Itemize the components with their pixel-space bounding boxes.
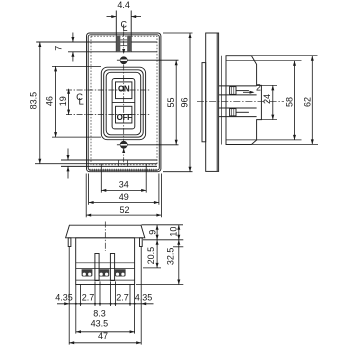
svg-text:62: 62 [303,97,313,107]
svg-text:2.7: 2.7 [116,293,129,303]
svg-text:OFF: OFF [117,113,133,122]
svg-text:2.7: 2.7 [82,293,95,303]
svg-text:L: L [122,23,127,33]
svg-text:24: 24 [262,94,272,104]
svg-text:7: 7 [53,46,63,51]
svg-text:2: 2 [256,83,261,93]
svg-text:20.5: 20.5 [146,247,156,265]
svg-text:32.5: 32.5 [165,248,175,266]
svg-text:46: 46 [44,96,54,106]
svg-text:96: 96 [179,97,189,107]
svg-text:10: 10 [169,227,179,237]
svg-text:ON: ON [118,85,130,94]
svg-text:55: 55 [166,97,176,107]
svg-text:83.5: 83.5 [29,92,39,110]
svg-text:8.3: 8.3 [93,308,106,318]
svg-text:4.35: 4.35 [55,293,73,303]
svg-text:47: 47 [98,331,108,341]
svg-text:52: 52 [119,205,129,215]
svg-text:19: 19 [58,96,68,106]
svg-text:49: 49 [119,192,129,202]
svg-text:4.35: 4.35 [135,293,153,303]
svg-text:43.5: 43.5 [91,319,109,329]
svg-text:4.4: 4.4 [117,0,130,10]
svg-text:L: L [78,97,83,108]
svg-text:58: 58 [285,97,295,107]
svg-text:34: 34 [119,180,129,190]
svg-text:9: 9 [147,230,157,235]
